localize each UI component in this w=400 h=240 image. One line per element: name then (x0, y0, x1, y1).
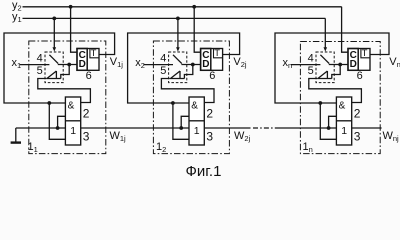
switch block (elements 4,5) dashed box, cell 2 (169, 52, 187, 83)
svg-text:2: 2 (83, 107, 90, 121)
wire: switch 5 output to D node, cell 1 (61, 65, 69, 79)
wire: W input to cell n (276, 127, 336, 129)
wire: switch 4 to D input, cell 3 (329, 64, 348, 66)
switch 5, cell 1 (46, 71, 61, 79)
wire: ground line to OR input, cell 1 (16, 127, 66, 129)
node y2 rail (23, 6, 342, 8)
svg-text:2: 2 (354, 107, 361, 121)
svg-text:xn: xn (283, 57, 293, 70)
svg-text:1: 1 (341, 125, 347, 137)
wire: feedback loop V2j to AND gate, cell 2 (128, 33, 240, 103)
cell 2 boundary (dash-dot) (153, 41, 229, 154)
wire: y2 to C input, cell 2 (194, 7, 200, 52)
wire: input x1 to switch 4, cell 1 (20, 64, 50, 66)
switch 5, cell 3 (317, 71, 332, 79)
svg-text:V2j: V2j (233, 56, 247, 69)
wire Wnj: OR output cell n (352, 127, 382, 129)
flip-flop U6 (C,D,T) box, cell 1 (77, 49, 99, 71)
svg-text:W1j: W1j (110, 130, 127, 143)
junction on AND input line, cell 2 (171, 101, 175, 105)
wire: W chain continuation (dash-dot) (253, 127, 276, 129)
svg-text:&: & (339, 100, 346, 111)
junction on W line, cell 3 (327, 126, 331, 130)
svg-text:Wnj: Wnj (383, 130, 400, 143)
svg-text:11: 11 (28, 141, 38, 154)
svg-text:2: 2 (206, 107, 213, 121)
svg-text:W2j: W2j (234, 130, 251, 143)
svg-text:T: T (91, 48, 97, 59)
wire: W line to AND gate input 2, cell 2 (181, 116, 189, 128)
junction on y1 rail, cell 2 (176, 17, 180, 21)
wire: switch 5 output to D node, cell 3 (332, 65, 340, 79)
wire: feedback to OR gate input 2, cell 2 (173, 103, 189, 139)
svg-text:3: 3 (83, 130, 90, 144)
wire: y2 to C input, cell 3 (342, 7, 348, 52)
switch 4, cell 3 (320, 55, 329, 64)
svg-text:D: D (202, 59, 209, 70)
svg-text:3: 3 (206, 130, 213, 144)
wire: feedback to OR gate input 2, cell 1 (49, 103, 65, 139)
wire: y1 control drop with arrow, cell 1 (53, 18, 55, 48)
switch block (elements 4,5) dashed box, cell 1 (45, 52, 63, 83)
junction on y2 rail, cell 2 (192, 5, 196, 9)
wire: switch 5 output to D node, cell 2 (184, 65, 192, 79)
switch 5, cell 2 (170, 71, 185, 79)
junction on AND input line, cell 3 (318, 101, 322, 105)
svg-text:D: D (79, 59, 86, 70)
cell 1 boundary (dash-dot) (29, 41, 106, 154)
svg-text:x1: x1 (12, 57, 22, 70)
svg-text:1: 1 (70, 125, 76, 137)
wire: AND gate 2 output to switch 5, cell 2 (161, 79, 214, 103)
junction on y2 rail, cell 1 (69, 5, 73, 9)
svg-text:V1j: V1j (110, 56, 124, 69)
wire: input x2 to switch 4, cell 2 (143, 64, 173, 66)
wire: feedback loop V1j to AND gate, cell 1 (4, 33, 115, 103)
svg-text:5: 5 (308, 65, 314, 77)
svg-text:x2: x2 (135, 57, 145, 70)
wire: feedback loop Vnj to AND gate, cell 3 (275, 33, 389, 103)
node y1 rail (23, 17, 326, 19)
junction on AND input line, cell 1 (47, 101, 51, 105)
junction on W line, cell 1 (56, 126, 60, 130)
svg-text:Фиг.1: Фиг.1 (186, 163, 222, 180)
svg-text:D: D (350, 59, 357, 70)
wire: feedback to OR gate input 2, cell 3 (320, 103, 336, 139)
wire: switch 4 to D input, cell 1 (58, 64, 77, 66)
switch 4, cell 1 (49, 55, 58, 64)
svg-text:5: 5 (37, 65, 43, 77)
svg-text:T: T (362, 48, 368, 59)
svg-text:6: 6 (209, 70, 215, 82)
svg-text:1: 1 (194, 125, 200, 137)
svg-text:&: & (191, 100, 198, 111)
wire: y1 control drop with arrow, cell 3 (324, 18, 326, 48)
svg-text:T: T (214, 48, 220, 59)
svg-text:4: 4 (160, 52, 166, 64)
wire: input xn to switch 4, cell 3 (291, 64, 321, 66)
svg-text:1n: 1n (303, 141, 313, 154)
svg-text:3: 3 (354, 130, 361, 144)
svg-text:5: 5 (160, 65, 166, 77)
gate block: AND (2) over OR (3), cell 1 (65, 97, 80, 145)
svg-text:6: 6 (86, 70, 92, 82)
gate block: AND (2) over OR (3), cell 3 (336, 97, 351, 145)
junction at D input, cell 2 (191, 63, 195, 67)
wire: switch 4 to D input, cell 2 (181, 64, 200, 66)
junction at D input, cell 1 (67, 63, 71, 67)
wire: AND gate 2 output to switch 5, cell 1 (38, 79, 91, 103)
flip-flop U6 (C,D,T) box, cell 3 (348, 49, 370, 71)
gate block: AND (2) over OR (3), cell 2 (189, 97, 204, 145)
ground symbol (15, 128, 17, 142)
wire: W line to AND gate input 2, cell 1 (58, 116, 66, 128)
wire W2j: OR output cell 2 (204, 127, 250, 129)
wire: y1 control drop with arrow, cell 2 (177, 18, 179, 48)
svg-text:12: 12 (156, 141, 166, 154)
svg-text:4: 4 (308, 52, 314, 64)
wire W1j: OR output cell 1 to cell 2 (81, 127, 189, 129)
switch block (elements 4,5) dashed box, cell 3 (316, 52, 334, 83)
svg-text:Vnj: Vnj (389, 56, 400, 69)
wire: AND gate 2 output to switch 5, cell 3 (309, 79, 362, 103)
wire: y2 to C input, cell 1 (71, 7, 77, 52)
junction on W line, cell 2 (179, 126, 183, 130)
junction on y1 rail, cell 1 (52, 17, 56, 21)
svg-text:4: 4 (37, 52, 43, 64)
flip-flop U6 (C,D,T) box, cell 2 (201, 49, 223, 71)
svg-text:&: & (68, 100, 75, 111)
svg-text:6: 6 (357, 70, 363, 82)
svg-text:y1: y1 (12, 11, 22, 24)
cell 3 boundary (dash-dot) (300, 42, 380, 154)
wire: W line to AND gate input 2, cell 3 (329, 116, 337, 128)
switch 4, cell 2 (173, 55, 182, 64)
junction at D input, cell 3 (338, 63, 342, 67)
